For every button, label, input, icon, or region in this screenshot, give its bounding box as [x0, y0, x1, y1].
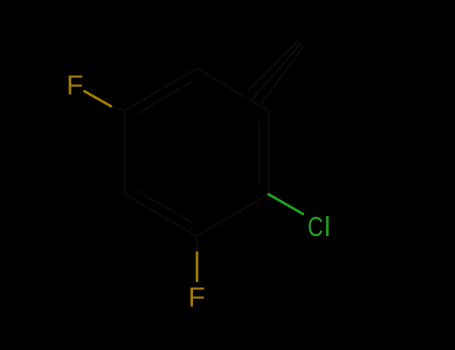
triple bond center line: [252, 43, 302, 100]
wire ring edge NE (top vertex to upper-right vertex): [197, 68, 269, 111]
svg-text:C: C: [308, 211, 324, 242]
double bond inner line on NW edge: [138, 81, 193, 114]
double bond inner line on SW edge: [138, 191, 193, 224]
bond C-F1 fluorine half (gold): [85, 91, 112, 106]
wire ring edge NW (upper-left to top vertex): [124, 68, 197, 111]
wire ring edge W (lower-left to upper-left vertex): [123, 111, 125, 194]
wire ring edge SW (bottom to lower-left vertex): [124, 194, 197, 236]
ethynyl triple bond streak at top right: [248, 41, 305, 107]
triple bond lower flank line: [260, 46, 305, 107]
svg-text:F: F: [188, 282, 205, 313]
triple bond upper flank line: [248, 41, 299, 92]
double bond inner line on E edge: [259, 121, 261, 185]
svg-text:F: F: [66, 69, 83, 100]
bond C-F2 fluorine half (gold): [196, 253, 199, 282]
wire ring edge E (upper-right to lower-right vertex): [268, 111, 270, 194]
wire ring edge SE (lower-right to bottom vertex): [197, 194, 269, 236]
bond C-F1 carbon half (gray, ring side): [111, 106, 124, 111]
svg-text:l: l: [324, 211, 330, 242]
bond C-F2 carbon half (gray, ring side): [196, 236, 198, 252]
bond C-Cl (green): [269, 194, 303, 214]
benzene ring outline: [124, 68, 268, 236]
